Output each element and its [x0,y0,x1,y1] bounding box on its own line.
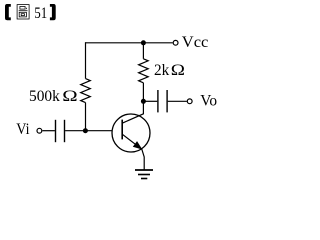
svg-text:2k: 2k [154,62,169,79]
svg-text:Vi: Vi [16,121,30,138]
svg-text:Ω: Ω [62,88,78,105]
svg-text:Vcc: Vcc [182,34,209,51]
svg-text:500k: 500k [29,88,60,105]
svg-text:Ω: Ω [171,62,185,79]
svg-text:Vo: Vo [200,93,217,110]
svg-text:51: 51 [34,5,47,22]
